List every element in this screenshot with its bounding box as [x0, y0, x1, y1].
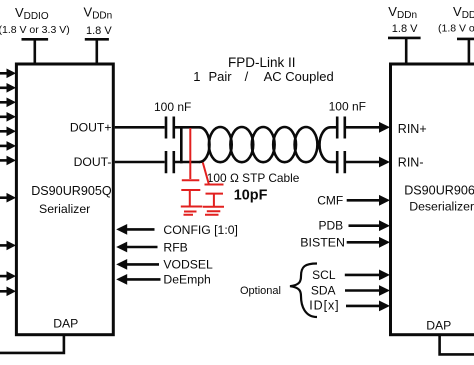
svg-text:100 nF: 100 nF	[329, 100, 366, 114]
serializer input arrow 11	[0, 287, 16, 297]
svg-text:10pF: 10pF	[234, 187, 268, 203]
wire ID[x] input arrow	[346, 301, 390, 312]
serializer input arrow 8	[0, 193, 16, 203]
deserializer U2 function label	[409, 200, 474, 214]
cable label 100 ohm STP Cable	[207, 171, 300, 185]
power rail VDDn serializer symbol	[85, 39, 109, 63]
power rail VDDn deserializer symbol	[388, 38, 421, 63]
capacitor C2 100 nF	[166, 151, 174, 173]
svg-text:SCL: SCL	[312, 268, 336, 282]
title FPD-Link II	[228, 55, 296, 70]
power VDDIO voltage note	[0, 24, 70, 36]
svg-text:DDn: DDn	[92, 11, 112, 22]
wire PDB input arrow	[349, 220, 391, 231]
pin ID[x] label	[309, 299, 339, 313]
pin DOUT- label	[74, 155, 112, 169]
power VDDn deserializer label	[388, 4, 417, 21]
svg-text:1.8 V: 1.8 V	[392, 23, 418, 35]
pin CMF label	[317, 193, 343, 207]
capacitor C3 10 pF	[181, 180, 200, 205]
deserializer U2 box	[391, 64, 474, 335]
svg-text:100 nF: 100 nF	[154, 100, 191, 114]
svg-text:DOUT+: DOUT+	[70, 120, 112, 134]
pin RFB label	[163, 240, 187, 254]
power VDDIO deserializer voltage note (clipped)	[438, 23, 474, 35]
twisted pair cable right funnel	[320, 127, 331, 162]
wire C5 to RIN+ with arrow	[346, 122, 390, 133]
wire DOUT+ from serializer to C1	[115, 126, 165, 129]
cable loop 5	[295, 127, 318, 162]
wire SDA input arrow	[345, 285, 390, 296]
serializer U1 part number label	[31, 184, 112, 198]
stub from DOUT- to C4	[203, 163, 209, 185]
pin RIN+ label	[398, 122, 427, 136]
C5 C6 value label 100 nF	[329, 100, 366, 114]
wire DeEmph input arrow	[116, 274, 160, 285]
pin DAP deserializer label	[426, 318, 451, 332]
power VDDn deserializer voltage note	[392, 23, 418, 35]
serializer U1 function label	[39, 202, 90, 216]
pin CONFIG [1:0] label	[163, 223, 238, 237]
wire DOUT- from serializer to C2	[115, 161, 165, 164]
pin SDA label	[311, 284, 336, 298]
wire BISTEN input arrow	[347, 237, 390, 248]
svg-text:DDIO: DDIO	[24, 11, 49, 22]
serializer U1 box	[16, 64, 113, 335]
svg-text:1Pair/AC Coupled: 1Pair/AC Coupled	[193, 69, 333, 84]
svg-text:RIN-: RIN-	[398, 156, 424, 170]
svg-text:Deserializer: Deserializer	[409, 200, 474, 214]
svg-text:CMF: CMF	[317, 193, 343, 207]
svg-text:DOUT-: DOUT-	[74, 155, 112, 169]
C3 C4 value label 10pF	[234, 187, 268, 203]
svg-text:PDB: PDB	[319, 219, 344, 233]
svg-text:V: V	[388, 4, 397, 19]
pin PDB label	[319, 219, 344, 233]
C1 C2 value label 100 nF	[154, 100, 191, 114]
svg-text:Serializer: Serializer	[39, 202, 90, 216]
optional group label	[240, 285, 281, 297]
ground at C3	[181, 207, 203, 215]
svg-text:V: V	[453, 4, 462, 19]
cable loop 1	[209, 127, 232, 162]
svg-text:1.8 V: 1.8 V	[86, 25, 112, 37]
wire CONFIG input arrow	[116, 224, 154, 235]
svg-text:(1.8 V or 3.3 V): (1.8 V or 3.3 V)	[438, 23, 474, 35]
svg-text:DS90UR906Q: DS90UR906Q	[404, 183, 474, 197]
wire DOUT- from C2 to cable	[175, 161, 200, 164]
svg-text:DDIO: DDIO	[462, 10, 474, 21]
wire C6 to RIN- with arrow	[346, 157, 390, 168]
serializer parallel input arrow 6	[0, 141, 16, 151]
power rail VDDIO deserializer symbol	[457, 39, 474, 63]
svg-text:DAP: DAP	[53, 317, 78, 331]
svg-text:100 Ω STP Cable: 100 Ω STP Cable	[207, 171, 300, 185]
svg-text:FPD-Link II: FPD-Link II	[228, 55, 296, 70]
serializer input arrow 9	[0, 241, 16, 251]
capacitor C4 10 pF	[205, 185, 224, 207]
pin BISTEN label	[300, 235, 345, 249]
wire DAP deserializer to ground plane	[438, 336, 474, 354]
svg-text:ID[x]: ID[x]	[309, 299, 339, 313]
optional group brace	[290, 264, 317, 318]
cable loop 4	[273, 127, 296, 162]
svg-text:DeEmph: DeEmph	[163, 272, 210, 286]
cable loop 3	[252, 127, 275, 162]
serializer parallel input arrow 7	[0, 156, 16, 166]
svg-text:V: V	[84, 5, 93, 20]
svg-text:BISTEN: BISTEN	[300, 235, 345, 249]
serializer parallel input arrow 1	[0, 69, 16, 79]
serializer parallel input arrow 2	[0, 83, 16, 93]
wire DOUT+ from C1 to cable	[175, 126, 200, 129]
capacitor C5 100 nF	[337, 117, 345, 139]
wire CMF input arrow	[347, 195, 390, 206]
wire RFB input arrow	[116, 242, 157, 253]
pin DOUT+ label	[70, 120, 112, 134]
cable loop 2	[230, 127, 253, 162]
pin RIN- label	[398, 156, 424, 170]
pin DAP serializer label	[53, 317, 78, 331]
pin SCL label	[312, 268, 336, 282]
svg-text:(1.8 V or 3.3 V): (1.8 V or 3.3 V)	[0, 24, 70, 36]
subtitle 1 Pair / AC Coupled	[193, 69, 333, 84]
svg-text:RFB: RFB	[163, 240, 187, 254]
svg-text:RIN+: RIN+	[398, 122, 427, 136]
serializer parallel input arrow 3	[0, 98, 16, 108]
stub from DOUT+ to C3	[189, 128, 191, 179]
power VDDIO deserializer label (clipped at edge)	[453, 4, 474, 21]
svg-text:VODSEL: VODSEL	[163, 258, 213, 272]
capacitor C6 100 nF	[337, 151, 345, 173]
svg-text:CONFIG [1:0]: CONFIG [1:0]	[163, 223, 238, 237]
serializer input arrow 10	[0, 271, 16, 281]
wire VODSEL input arrow	[116, 259, 159, 270]
ground at C4	[203, 207, 224, 215]
wire cable to C5	[331, 126, 337, 129]
serializer parallel input arrow 4	[0, 112, 16, 122]
svg-text:DDn: DDn	[397, 10, 417, 21]
wire DAP serializer to ground plane	[0, 336, 65, 353]
capacitor C1 100 nF	[166, 117, 174, 139]
wire cable to C6	[331, 161, 337, 164]
power rail VDDIO symbol	[22, 39, 49, 63]
svg-text:DS90UR905Q: DS90UR905Q	[31, 184, 112, 198]
pin VODSEL label	[163, 258, 213, 272]
serializer parallel input arrow 5	[0, 127, 16, 137]
twisted pair cable left end bar	[180, 126, 183, 163]
deserializer U2 part number label	[404, 183, 474, 197]
svg-text:Optional: Optional	[240, 285, 281, 297]
svg-text:DAP: DAP	[426, 318, 451, 332]
svg-text:SDA: SDA	[311, 284, 336, 298]
power VDDn serializer label	[84, 5, 113, 22]
wire SCL input arrow	[345, 270, 390, 281]
twisted pair cable left funnel	[200, 127, 210, 162]
power VDDn serializer voltage note	[86, 25, 112, 37]
pin DeEmph label	[163, 272, 210, 286]
power VDDIO label	[15, 5, 49, 22]
